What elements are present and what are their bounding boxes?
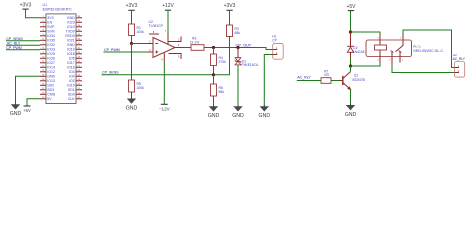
svg-text:IO15: IO15	[67, 84, 75, 88]
ground (under R5)	[126, 98, 138, 112]
wire U2 output to R3	[183, 47, 191, 49]
resistor R1 100k	[129, 24, 145, 36]
node junction R4 branch	[212, 46, 215, 49]
svg-text:SVN: SVN	[47, 30, 55, 34]
svg-text:IO23: IO23	[67, 21, 75, 25]
svg-text:1k 1%: 1k 1%	[190, 40, 199, 44]
svg-text:−12V: −12V	[159, 107, 171, 112]
power flag +3V3 (above R1)	[126, 3, 138, 10]
pin 15 IO13	[40, 80, 46, 82]
wire R2 down to CP_SENS (crosses CP_OUT)	[214, 37, 230, 75]
svg-text:IO12: IO12	[47, 70, 55, 74]
svg-text:CP: CP	[272, 38, 276, 42]
svg-text:GND: GND	[208, 113, 220, 119]
svg-text:IO33: IO33	[47, 48, 55, 52]
ground (under U1)	[10, 103, 22, 117]
wire AC_RLY to R7	[297, 80, 321, 82]
svg-text:SD1: SD1	[68, 88, 75, 92]
op-amp U2 TL081CP	[147, 20, 183, 62]
pin 20 CLK	[76, 98, 82, 100]
svg-text:EN: EN	[47, 21, 52, 25]
svg-text:+3V3: +3V3	[126, 3, 138, 9]
pin 9 IO25	[40, 53, 46, 55]
svg-text:+3V3: +3V3	[20, 3, 32, 9]
pin 2 EN	[40, 21, 46, 23]
svg-text:IO34: IO34	[47, 34, 55, 38]
svg-text:+5V: +5V	[346, 4, 356, 10]
pin 34 RXD0	[76, 35, 82, 37]
pin 8 IO33	[40, 48, 46, 50]
power flag +3V3 (above R2)	[224, 3, 236, 10]
wire +3V3 to U1 pin 3V3	[26, 9, 41, 18]
svg-text:P4KE16CA: P4KE16CA	[242, 63, 259, 67]
power flag -12V (below U2)	[159, 104, 171, 111]
svg-text:100k: 100k	[137, 30, 145, 34]
wire +5V down to node	[350, 11, 352, 32]
svg-text:IO16: IO16	[67, 66, 75, 70]
transistor Q1 BC547B	[340, 72, 366, 90]
svg-text:IO13: IO13	[47, 79, 55, 83]
pin 36 IO22	[76, 26, 82, 28]
pin 13 IO12	[40, 71, 46, 73]
node REF junction	[130, 42, 133, 45]
svg-text:IO32: IO32	[47, 43, 55, 47]
wire R4 to CP_SENS node	[213, 66, 215, 75]
svg-text:5V: 5V	[47, 97, 52, 101]
svg-text:SD0: SD0	[68, 93, 75, 97]
pin 23 IO15	[76, 84, 82, 86]
svg-text:IO5: IO5	[69, 57, 75, 61]
svg-text:GND: GND	[67, 43, 75, 47]
svg-text:56k: 56k	[219, 90, 225, 94]
wire collector node to relay coil bottom	[351, 63, 381, 67]
wire relay NO contact to H2 pin 2	[392, 65, 455, 73]
svg-text:+3V3: +3V3	[224, 3, 236, 9]
wire U2 pin 4 to -12V flag (crosses CP_SENS)	[163, 62, 165, 104]
svg-text:CP_SENS: CP_SENS	[102, 71, 119, 75]
mcu U1 ESP32-DEVKITC	[40, 3, 82, 103]
pin 6 IO35	[40, 39, 46, 41]
wire R7 to Q1 base	[331, 80, 340, 82]
power flag +5V (above relay)	[346, 4, 356, 11]
wire R6 to ground	[213, 96, 215, 106]
node junction D1 branch	[236, 46, 239, 49]
pin 10 IO26	[40, 57, 46, 59]
pin 35 TXD0	[76, 30, 82, 32]
svg-text:GND: GND	[232, 113, 244, 119]
wire +3V3 to R1	[131, 10, 133, 24]
svg-text:100k: 100k	[137, 86, 145, 90]
svg-text:GND: GND	[126, 105, 138, 111]
wire Q1 collector	[350, 66, 352, 72]
ground (under Q1)	[345, 104, 357, 118]
power flag +3V3 (left, feeds U1 3V3 pin)	[20, 3, 32, 9]
pin 22 SD1	[76, 89, 82, 91]
wire H1 pin2 to ground	[264, 55, 272, 107]
pin 5 IO34	[40, 35, 46, 37]
relay RLY1 SRD-05VDC-SL-C	[366, 33, 444, 65]
wire CP_SENS to IO35	[6, 40, 40, 42]
pin 21 SD0	[76, 93, 82, 95]
svg-text:68k: 68k	[235, 31, 241, 35]
svg-text:IO17: IO17	[67, 61, 75, 65]
resistor R3 1k 1%	[190, 36, 204, 50]
wire +3V3 to R2	[229, 10, 231, 25]
svg-text:270k: 270k	[219, 60, 227, 64]
ground (under D1)	[232, 105, 244, 119]
svg-text:TXD0: TXD0	[66, 30, 75, 34]
pin 30 IO18	[76, 53, 82, 55]
pin 24 IO2	[76, 80, 82, 82]
svg-text:IO26: IO26	[47, 57, 55, 61]
pin 29 IO5	[76, 57, 82, 59]
svg-text:IO4: IO4	[69, 70, 75, 74]
wire junction to U2 pin 2	[132, 43, 148, 45]
ground (under H1)	[259, 105, 271, 119]
diode D2 1N4148	[347, 32, 364, 58]
pin 33 IO21	[76, 39, 82, 41]
pin 16 SD2	[40, 84, 46, 86]
resistor R7 470	[321, 69, 331, 83]
pin 31 IO19	[76, 48, 82, 50]
pin 7 IO32	[40, 44, 46, 46]
wire CP_OUT run (R3 to H1)	[204, 48, 273, 50]
wire R5 to ground	[131, 92, 133, 99]
wire CP_SENS horizontal run	[102, 74, 214, 76]
svg-text:RXD0: RXD0	[65, 34, 74, 38]
svg-text:SVP: SVP	[47, 25, 55, 29]
wire relay common to H2 pin 1	[403, 30, 455, 68]
pin 19 5V	[40, 98, 46, 100]
svg-text:GND: GND	[259, 113, 271, 119]
wire U1 5V pin to +5V flag	[27, 99, 40, 106]
svg-text:TL081CP: TL081CP	[149, 24, 164, 28]
pin 25 IO0	[76, 75, 82, 77]
svg-text:IO25: IO25	[47, 52, 55, 56]
svg-text:SD3: SD3	[47, 88, 54, 92]
pin 17 SD3	[40, 89, 46, 91]
node CP_SENS junction	[212, 73, 215, 76]
pin 26 IO4	[76, 71, 82, 73]
wire CP_PWM to IO33	[6, 49, 40, 51]
resistor R4 270k	[211, 54, 227, 66]
svg-text:CMD: CMD	[47, 93, 55, 97]
svg-text:BC547B: BC547B	[353, 78, 366, 82]
power flag +5V (below U1)	[23, 106, 31, 113]
pin 28 IO17	[76, 62, 82, 64]
wire U1 GND pin to ground	[16, 76, 41, 104]
connector H2 AC_RLY	[453, 53, 466, 77]
svg-text:IO18: IO18	[67, 52, 75, 56]
ground (under R6)	[208, 105, 220, 119]
svg-text:CP_OUT: CP_OUT	[236, 42, 252, 47]
resistor R6 56k	[211, 84, 225, 96]
svg-text:IO0: IO0	[69, 75, 75, 79]
pin 32 GND	[76, 44, 82, 46]
wire CP_SENS node to R6	[213, 75, 215, 84]
wire +5V node to relay coil top	[351, 32, 381, 34]
pin 4 SVN	[40, 30, 46, 32]
svg-text:IO14: IO14	[47, 66, 55, 70]
svg-text:CLK: CLK	[68, 97, 75, 101]
pin 11 IO27	[40, 62, 46, 64]
resistor R2 68k	[227, 25, 241, 37]
svg-text:Q1: Q1	[354, 73, 358, 77]
svg-text:GND: GND	[345, 112, 357, 118]
pin 18 CMD	[40, 93, 46, 95]
svg-text:1N4148: 1N4148	[353, 50, 365, 54]
wire Q1 emitter to ground	[350, 89, 352, 105]
svg-text:IO22: IO22	[67, 25, 75, 29]
svg-text:ESP32-DEVKITC: ESP32-DEVKITC	[43, 7, 72, 12]
svg-text:GND: GND	[10, 111, 22, 117]
wire R1 to node REF / junction	[131, 36, 133, 44]
wire AC_RLY to IO32	[6, 44, 40, 46]
pin 27 IO16	[76, 66, 82, 68]
svg-text:470: 470	[324, 73, 330, 77]
wire +12V to U2 pin 7	[167, 10, 169, 33]
connector H1 CP	[272, 34, 283, 59]
svg-text:GND: GND	[67, 16, 75, 20]
svg-text:SD2: SD2	[47, 84, 54, 88]
svg-text:+12V: +12V	[162, 3, 174, 9]
node +5V junction	[349, 30, 352, 33]
pin 12 IO14	[40, 66, 46, 68]
wire CP_PWM to U2 pin 3	[104, 51, 148, 53]
power flag +12V (above U2 pin 7)	[162, 3, 174, 10]
svg-text:AC_RLY: AC_RLY	[453, 57, 466, 61]
svg-text:SRD-05VDC-SL-C: SRD-05VDC-SL-C	[413, 49, 443, 53]
diode D1 P4KE16CA TVS	[235, 48, 259, 68]
pin 37 IO23	[76, 21, 82, 23]
svg-text:IO2: IO2	[69, 79, 75, 83]
svg-text:IO21: IO21	[67, 39, 75, 43]
svg-text:CP_PWM: CP_PWM	[104, 48, 120, 52]
svg-text:IO19: IO19	[67, 48, 75, 52]
svg-text:+5V: +5V	[23, 108, 31, 113]
svg-text:GND: GND	[47, 75, 55, 79]
pin 3 SVP	[40, 26, 46, 28]
node collector junction	[349, 64, 352, 67]
pin 38 GND	[76, 17, 82, 19]
resistor R5 100k	[129, 80, 145, 92]
pin 14 GND	[40, 75, 46, 77]
wire REF divider down to R5 (crosses CP_PWM and CP_SENS)	[131, 44, 133, 81]
wire junction to R4	[213, 48, 215, 55]
svg-text:AC_RLY: AC_RLY	[297, 76, 311, 80]
svg-text:IO35: IO35	[47, 39, 55, 43]
wire D1 to ground	[237, 65, 239, 106]
svg-text:3V3: 3V3	[47, 16, 53, 20]
svg-text:IO27: IO27	[47, 61, 55, 65]
pin 1 3V3	[40, 17, 46, 19]
wire D2 to collector node	[350, 58, 352, 66]
